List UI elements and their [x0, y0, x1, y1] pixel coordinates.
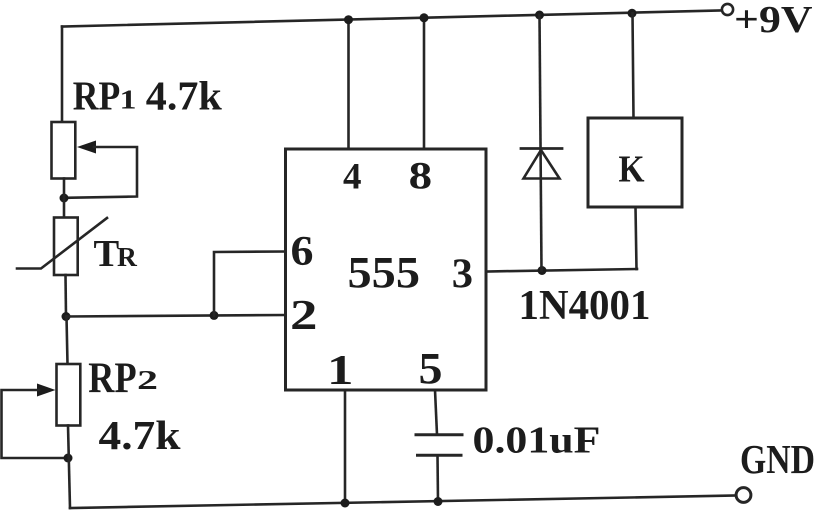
- svg-text:RP: RP: [88, 355, 136, 402]
- wire: junction to 555 pin 2: [66, 315, 286, 317]
- IC U1 555 timer body: [286, 149, 487, 390]
- svg-text:0.01uF: 0.01uF: [473, 419, 601, 461]
- capacitor C1 top plate: [416, 433, 462, 436]
- potentiometer RP1 body: [52, 122, 76, 179]
- svg-text:2: 2: [137, 364, 158, 395]
- terminal: +9V: [722, 4, 733, 15]
- svg-text:4.7k: 4.7k: [99, 412, 181, 458]
- potentiometer RP2 body: [57, 364, 81, 426]
- svg-text:1N4001: 1N4001: [519, 283, 651, 329]
- label RP1 4.7k: [73, 73, 222, 119]
- node: pin6 branch junction: [210, 311, 219, 320]
- thermistor TR body: [54, 218, 78, 276]
- wire: top rail down to relay K: [633, 13, 634, 118]
- relay K coil body: [588, 118, 682, 207]
- node: ground rail junction at pin 1: [341, 499, 350, 508]
- svg-text:4.7k: 4.7k: [146, 73, 222, 119]
- wire: ground bottom rail: [70, 496, 737, 509]
- wire: top rail down to RP1: [61, 27, 64, 123]
- node: ground rail junction at capacitor: [434, 497, 443, 506]
- wire: TR to pin2 node: [64, 275, 67, 317]
- node: RP2 bottom junction: [64, 454, 73, 463]
- svg-text:GND: GND: [740, 436, 814, 482]
- wire: pin 8 to top rail: [423, 18, 426, 149]
- wire: RP1 wiper loop to lower terminal: [66, 147, 137, 198]
- label TR: [94, 233, 139, 275]
- svg-text:T: T: [94, 233, 120, 275]
- node: rail junction at pin 4: [344, 15, 353, 24]
- svg-text:2: 2: [290, 292, 318, 339]
- svg-text:8: 8: [409, 154, 433, 198]
- svg-text:6: 6: [291, 228, 314, 275]
- svg-text:R: R: [117, 241, 138, 272]
- wire: junction down to RP2: [67, 317, 68, 365]
- node: TR / RP2 / pin2 junction: [62, 312, 71, 321]
- terminal: GND: [736, 488, 751, 503]
- svg-text:555: 555: [348, 248, 421, 297]
- wire: pin 4 to top rail: [347, 20, 350, 150]
- diode VD 1N4001 triangle: [524, 150, 560, 179]
- wire: relay K down to pin3 wire: [636, 207, 637, 269]
- wire: +9V top supply rail: [62, 11, 720, 27]
- svg-text:5: 5: [419, 344, 443, 393]
- svg-text:4: 4: [343, 156, 362, 197]
- wire: pin 1 to ground rail: [344, 390, 347, 503]
- node: rail junction at diode: [535, 11, 544, 20]
- wire: 555 pin 3 output: [486, 269, 637, 272]
- node: rail junction at pin 8: [420, 13, 429, 22]
- svg-text:1: 1: [120, 85, 137, 115]
- node: rail junction at relay: [628, 9, 637, 18]
- wire: branch up to 555 pin 6: [214, 252, 286, 316]
- wire: pin 5 down to capacitor: [435, 390, 437, 435]
- thermistor TR diagonal stroke: [17, 218, 107, 269]
- potentiometer RP1 wiper arrow: [77, 141, 96, 154]
- svg-text:3: 3: [452, 250, 473, 297]
- node: RP1 bottom junction: [60, 194, 69, 203]
- svg-text:1: 1: [327, 348, 354, 394]
- label RP2: [88, 355, 158, 402]
- potentiometer RP2 wiper arrow: [37, 384, 56, 397]
- wire: capacitor to ground rail: [436, 455, 439, 501]
- wire: top rail down to diode and through to pin3 wire: [540, 15, 542, 271]
- svg-text:+9V: +9V: [734, 0, 813, 41]
- wire: RP1 to TR: [63, 179, 66, 218]
- capacitor C1 bottom plate: [418, 454, 462, 457]
- svg-text:RP: RP: [73, 73, 121, 119]
- node: pin3 wire junction at diode: [538, 266, 547, 275]
- wire: RP2 wiper loop to lower terminal: [2, 390, 64, 458]
- wire: RP2 down to ground rail: [68, 426, 70, 509]
- svg-text:K: K: [619, 148, 645, 190]
- diode VD 1N4001 cathode bar: [521, 147, 562, 150]
